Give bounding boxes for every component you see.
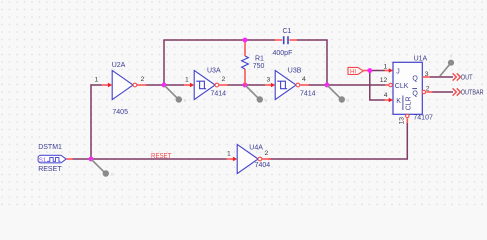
svg-text:OUT: OUT	[461, 75, 473, 82]
wire feedback vertical at x=164	[163, 40, 165, 85]
svg-text:U3B: U3B	[288, 68, 302, 75]
off-page connector OUT	[453, 73, 474, 81]
svg-text:J: J	[396, 68, 400, 75]
svg-text:13: 13	[398, 117, 405, 125]
inverter U4A (7404)	[237, 144, 262, 173]
pin stub U3B input pin 3 with arrow	[265, 83, 275, 88]
svg-text:C1: C1	[283, 28, 292, 35]
svg-text:750: 750	[253, 63, 265, 70]
svg-text:1: 1	[227, 150, 231, 157]
wire from RESET junction up to U2A input	[91, 85, 102, 159]
svg-text:1: 1	[185, 76, 189, 83]
svg-text:K: K	[396, 98, 401, 105]
wire U3A output to U3B input	[227, 84, 265, 86]
svg-text:400pF: 400pF	[273, 50, 293, 57]
wire top horizontal to C1 left	[163, 39, 275, 41]
svg-text:HI: HI	[350, 70, 356, 76]
resistor R1 body	[242, 56, 249, 69]
svg-text:7414: 7414	[211, 91, 227, 98]
svg-text:U1A: U1A	[414, 55, 428, 62]
wire U1A Q to OUT connector	[430, 76, 454, 78]
svg-text:RESET: RESET	[151, 153, 172, 160]
svg-text:4: 4	[384, 92, 388, 99]
svg-text:CLR: CLR	[405, 96, 412, 110]
junction U3B output node	[325, 83, 330, 88]
pin stub U1A J pin 1 with arrow	[385, 68, 394, 73]
svg-text:U3A: U3A	[207, 68, 221, 75]
svg-text:1: 1	[95, 76, 99, 83]
Schmitt inverter U3B (7414)	[275, 70, 300, 99]
pin stub U1A CLK pin 12 with bubble	[385, 83, 392, 86]
pin stub DSTM1 output	[66, 158, 73, 160]
pin stub U1A CLR pin 13 with bubble	[406, 114, 409, 123]
wire U2A output to U3A input	[146, 84, 184, 86]
pin stub U2A input pin 1 with arrow	[102, 83, 113, 88]
capacitor C1 pin stubs	[275, 39, 298, 41]
pin stub U3B output pin 4	[300, 84, 309, 86]
svg-text:RESET: RESET	[38, 166, 62, 173]
probe marker on OUT net	[440, 54, 454, 77]
svg-text:U2A: U2A	[112, 62, 126, 69]
svg-text:2: 2	[141, 76, 145, 83]
wire U3B output to U1A CLK pin	[308, 84, 385, 86]
probe marker on R1 bottom node	[246, 86, 268, 105]
svg-text:DSTM1: DSTM1	[38, 144, 62, 151]
junction on RESET wire	[89, 157, 94, 162]
pin stub U1A K pin 4 with arrow	[385, 98, 394, 103]
svg-text:CLK: CLK	[395, 83, 409, 90]
probe marker on RESET net	[92, 160, 114, 179]
svg-text:7414: 7414	[300, 91, 316, 98]
resistor R1 pin stubs	[244, 40, 246, 85]
wire U1A QBAR to OUTBAR connector	[432, 91, 453, 93]
pin stub U1A Q pin 3	[422, 76, 430, 78]
pin stub U3A input pin 1 with arrow	[184, 83, 194, 88]
svg-text:1: 1	[384, 64, 388, 71]
svg-text:U4A: U4A	[249, 145, 263, 152]
svg-text:Q: Q	[412, 76, 418, 83]
svg-text:2: 2	[426, 86, 430, 93]
inverter U2A (7405)	[112, 70, 137, 99]
probe marker on U2A output node	[165, 86, 187, 105]
Schmitt inverter U3A (7414)	[194, 70, 219, 99]
JK flip-flop U1A (74107)	[393, 62, 422, 114]
svg-text:7404: 7404	[255, 162, 271, 169]
svg-text:R1: R1	[255, 56, 264, 63]
pin stub U1A QBAR pin 2 with bubble	[422, 90, 432, 93]
svg-text:>: >	[450, 54, 453, 60]
wire C1 right to corner and down to main junction	[297, 40, 328, 85]
svg-text:3: 3	[425, 71, 429, 78]
svg-text:7405: 7405	[112, 109, 128, 116]
probe marker on U3B output node	[328, 86, 350, 105]
svg-text:OUTBAR: OUTBAR	[461, 90, 484, 97]
off-page connector OUTBAR	[453, 88, 484, 96]
pin stub U3A output pin 2	[219, 84, 228, 86]
junction R1 top node	[243, 38, 248, 43]
svg-text:2: 2	[222, 76, 226, 83]
svg-text:4: 4	[302, 76, 306, 83]
HI logic-high tag	[348, 67, 368, 75]
pin stub U4A output pin 2	[262, 158, 271, 160]
junction R1 bottom node	[243, 83, 248, 88]
wire RESET net: DSTM1 output to U4A input	[72, 158, 227, 160]
junction U2A output node	[162, 83, 167, 88]
svg-text:12: 12	[380, 77, 388, 84]
pin stub U2A output pin 2	[137, 84, 147, 86]
wire J junction down to U1A K pin	[370, 71, 385, 101]
svg-text:74107: 74107	[413, 114, 433, 121]
svg-text:S1: S1	[39, 157, 47, 164]
svg-text:Q: Q	[412, 91, 418, 98]
digital stimulus DSTM1	[38, 155, 66, 164]
pin stub U4A input pin 1 with arrow	[227, 157, 238, 162]
wire U4A output to U1A pin 13 (CLR)	[268, 123, 407, 160]
junction J/K node	[367, 68, 372, 73]
svg-text:2: 2	[265, 150, 269, 157]
svg-text:3: 3	[267, 76, 271, 83]
capacitor C1 plates	[284, 36, 288, 44]
wire HI tag to U1A J pin	[368, 70, 385, 72]
